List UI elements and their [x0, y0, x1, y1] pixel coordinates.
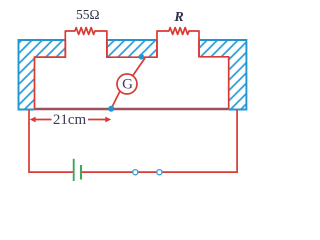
svg-text:21cm: 21cm	[53, 112, 87, 128]
svg-text:G: G	[122, 77, 133, 93]
svg-text:R: R	[173, 10, 183, 25]
svg-text:55Ω: 55Ω	[76, 7, 100, 22]
